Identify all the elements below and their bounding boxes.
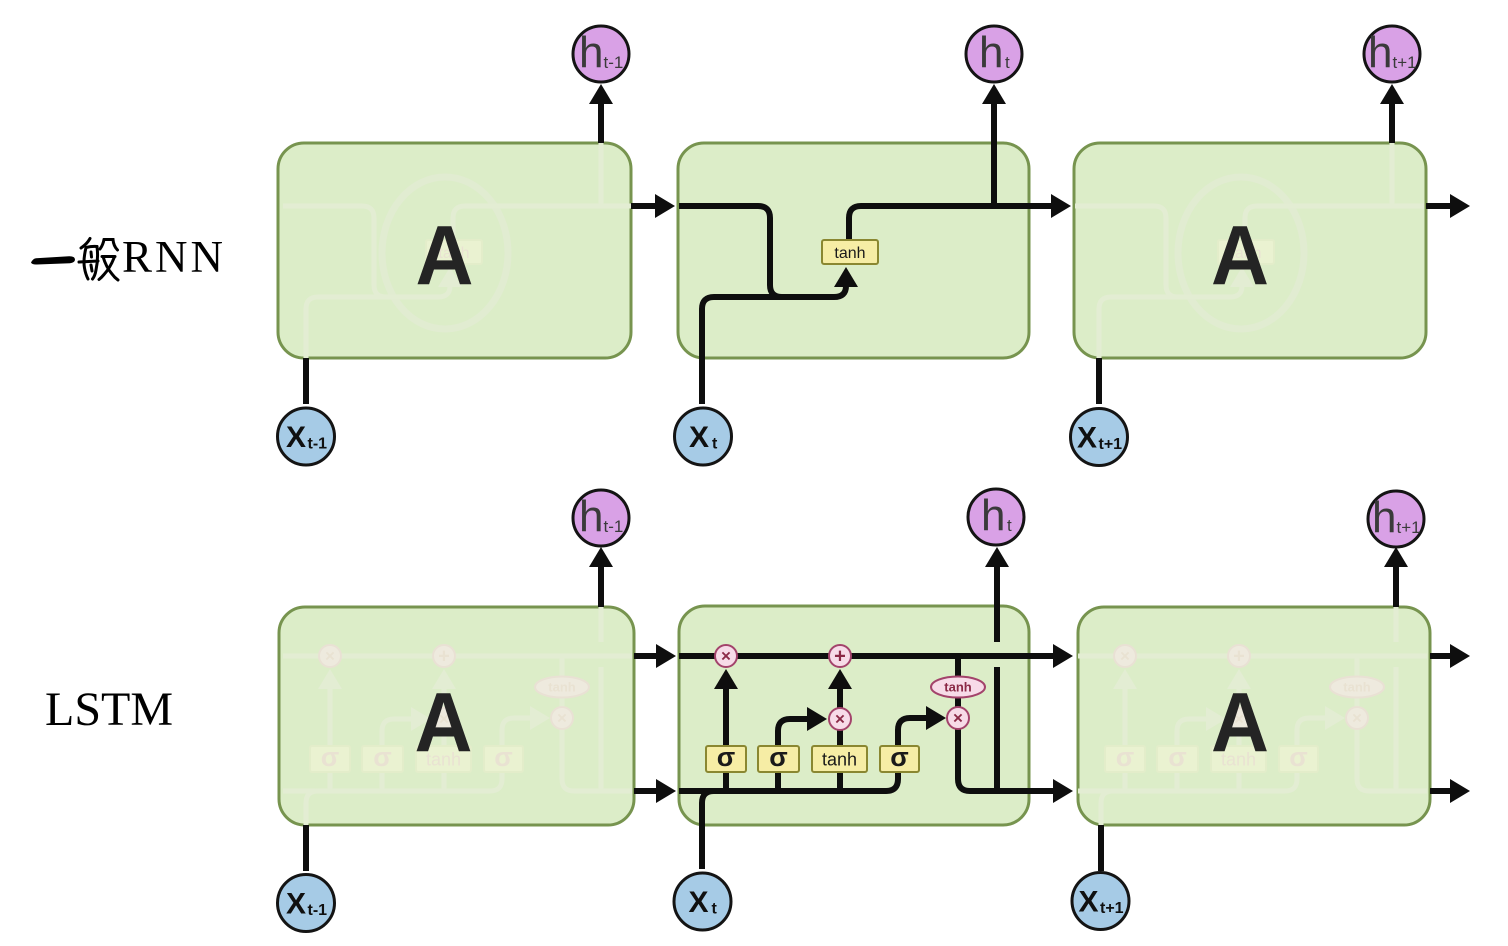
svg-text:×: ×	[1352, 709, 1362, 728]
svg-text:×: ×	[325, 647, 335, 666]
svg-text:X: X	[689, 886, 709, 919]
svg-text:t: t	[712, 436, 718, 453]
svg-text:t+1: t+1	[1393, 53, 1417, 72]
svg-text:t-1: t-1	[604, 517, 624, 536]
svg-text:t+1: t+1	[1100, 900, 1124, 917]
svg-text:h: h	[979, 28, 1003, 77]
svg-text:X: X	[689, 421, 709, 454]
svg-text:t: t	[1005, 53, 1010, 72]
svg-text:+: +	[834, 646, 846, 668]
svg-text:tanh: tanh	[548, 680, 576, 695]
svg-text:t-1: t-1	[604, 53, 624, 72]
svg-text:+: +	[1233, 646, 1245, 668]
svg-text:×: ×	[1120, 647, 1130, 666]
svg-text:t+1: t+1	[1099, 436, 1123, 453]
svg-text:t+1: t+1	[1397, 518, 1421, 537]
svg-text:σ: σ	[494, 742, 512, 772]
svg-text:σ: σ	[373, 742, 391, 772]
svg-text:h: h	[1372, 493, 1396, 542]
svg-text:σ: σ	[1168, 742, 1186, 772]
svg-text:X: X	[286, 888, 306, 921]
svg-text:A: A	[1211, 209, 1269, 303]
svg-text:LSTM: LSTM	[45, 683, 173, 736]
svg-text:σ: σ	[769, 742, 787, 772]
svg-text:×: ×	[557, 709, 567, 728]
svg-text:h: h	[579, 28, 603, 77]
svg-text:+: +	[438, 646, 450, 668]
svg-text:t-1: t-1	[308, 902, 328, 919]
svg-text:t: t	[712, 901, 718, 918]
svg-text:X: X	[1079, 886, 1099, 919]
svg-text:X: X	[286, 421, 306, 454]
svg-text:σ: σ	[1289, 742, 1307, 772]
svg-text:tanh: tanh	[1343, 680, 1371, 695]
svg-text:×: ×	[721, 647, 731, 666]
svg-text:×: ×	[835, 710, 845, 729]
svg-text:A: A	[1211, 676, 1269, 770]
svg-text:t-1: t-1	[308, 436, 328, 453]
svg-text:t: t	[1007, 516, 1012, 535]
svg-text:tanh: tanh	[822, 750, 857, 770]
svg-text:RNN: RNN	[122, 232, 226, 282]
svg-text:X: X	[1077, 422, 1097, 455]
svg-text:σ: σ	[717, 742, 735, 772]
svg-text:h: h	[579, 492, 603, 541]
svg-text:tanh: tanh	[944, 680, 972, 695]
svg-text:σ: σ	[1116, 742, 1134, 772]
svg-text:h: h	[981, 491, 1005, 540]
svg-text:h: h	[1368, 28, 1392, 77]
svg-text:×: ×	[953, 709, 963, 728]
svg-text:A: A	[416, 209, 474, 303]
svg-text:σ: σ	[321, 742, 339, 772]
svg-text:A: A	[415, 676, 473, 770]
svg-text:σ: σ	[890, 742, 908, 772]
svg-text:tanh: tanh	[834, 245, 865, 262]
